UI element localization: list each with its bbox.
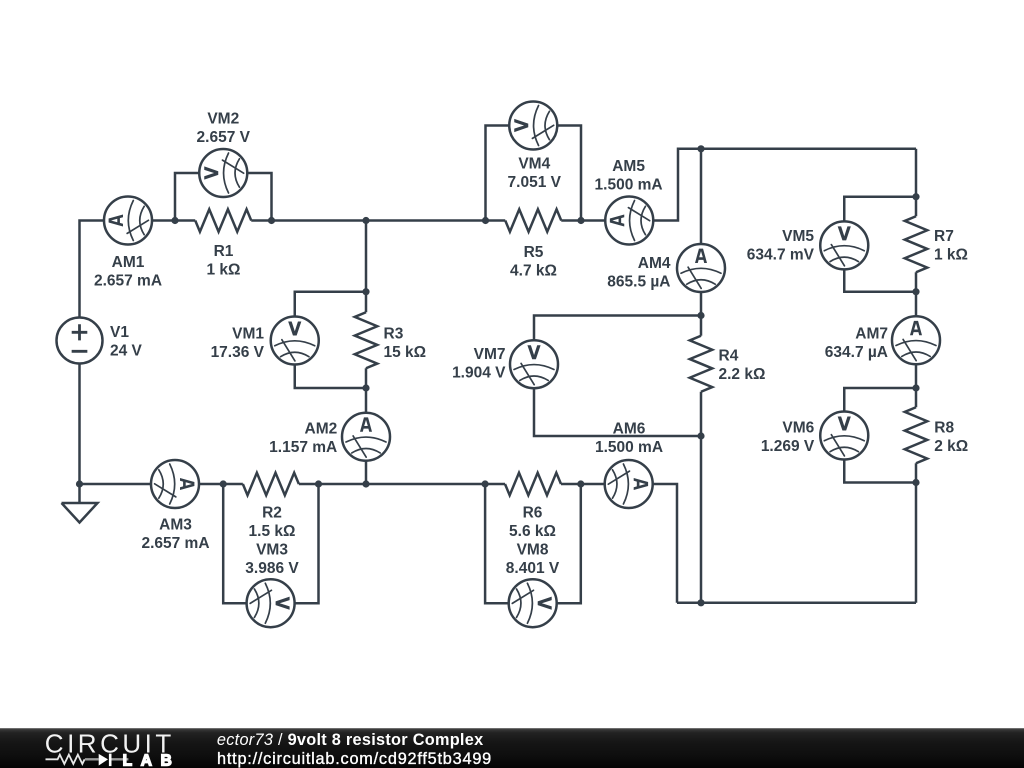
svg-text:1.157 mA: 1.157 mA: [269, 439, 337, 456]
wire VM8 right: [556, 484, 581, 603]
label VM5: [747, 228, 815, 264]
svg-text:VM8: VM8: [517, 542, 549, 559]
wire AM2 bottom: [365, 461, 368, 484]
logo resistor glyph: [46, 755, 85, 764]
ammeter AM6: [605, 460, 653, 508]
junction J4: [482, 217, 489, 224]
footer bar: [0, 728, 1024, 768]
svg-text:VM7: VM7: [474, 346, 506, 363]
svg-text:2.2 kΩ: 2.2 kΩ: [719, 366, 766, 383]
wire VM1 top: [295, 292, 366, 317]
svg-text:2.657 mA: 2.657 mA: [94, 272, 162, 289]
svg-text:634.7 mV: 634.7 mV: [747, 247, 815, 264]
label AM1: [94, 254, 162, 290]
svg-text:2 kΩ: 2 kΩ: [934, 438, 968, 455]
svg-text:AM5: AM5: [612, 158, 645, 175]
junction J17: [697, 599, 704, 606]
svg-text:AM4: AM4: [638, 255, 671, 272]
svg-text:R8: R8: [934, 420, 954, 437]
junction J13: [577, 480, 584, 487]
wire AM3 to R2: [199, 483, 223, 486]
svg-text:1.269 V: 1.269 V: [761, 438, 815, 455]
wire VM1 bottom: [295, 365, 366, 389]
wire VM6 top: [844, 388, 916, 412]
svg-text:VM1: VM1: [232, 326, 264, 343]
svg-text:1 kΩ: 1 kΩ: [207, 262, 241, 279]
junction J19: [912, 288, 919, 295]
ammeter AM5: [605, 197, 653, 245]
svg-text:R2: R2: [262, 505, 282, 522]
svg-text:AM7: AM7: [855, 326, 888, 343]
svg-text:AM1: AM1: [112, 254, 145, 271]
label AM3: [141, 517, 209, 553]
junction J6: [362, 288, 369, 295]
wire AM6 to bus: [653, 484, 677, 603]
wire VM2 right: [247, 173, 271, 221]
voltmeter VM6: [820, 412, 868, 460]
label AM5: [595, 158, 663, 194]
svg-text:1.5 kΩ: 1.5 kΩ: [249, 523, 296, 540]
ammeter AM7: [892, 316, 940, 364]
label VM1: [211, 326, 265, 362]
wire V1 bottom: [78, 365, 81, 485]
voltmeter VM1: [271, 317, 319, 365]
label VM6: [761, 419, 815, 455]
label VM2: [197, 111, 251, 147]
svg-text:VM6: VM6: [782, 419, 814, 436]
ammeter AM1: [104, 197, 152, 245]
svg-text:R7: R7: [934, 228, 954, 245]
wire VM4 right: [557, 126, 581, 221]
svg-text:24 V: 24 V: [110, 343, 143, 360]
label V1 value: [110, 324, 143, 360]
junction J12: [482, 480, 489, 487]
svg-text:17.36 V: 17.36 V: [211, 344, 265, 361]
wire VM6 bottom: [844, 460, 916, 483]
wire AM7 bottom: [915, 364, 918, 388]
wire VM8 left: [485, 484, 509, 603]
wire VM2 left: [175, 173, 199, 221]
wire bottom bus: [677, 602, 916, 605]
ammeter AM4: [677, 244, 725, 292]
wire node N2 to N3: [366, 219, 486, 222]
svg-text:R5: R5: [524, 244, 544, 261]
voltmeter VM3: [247, 579, 295, 627]
svg-text:VM2: VM2: [207, 111, 239, 128]
resistor R5: [486, 209, 582, 232]
resistor R7: [905, 197, 928, 292]
junction J9: [76, 480, 83, 487]
junction J2: [268, 217, 275, 224]
junction J16: [697, 432, 704, 439]
svg-text:R1: R1: [214, 243, 234, 260]
wire ground to AM3: [80, 483, 152, 486]
label AM2: [269, 421, 337, 457]
junction J7: [362, 384, 369, 391]
resistor R2: [223, 473, 318, 496]
junction J20: [912, 384, 919, 391]
ammeter AM2: [342, 413, 390, 461]
wire AM4 bottom: [700, 292, 703, 316]
resistor R4: [690, 316, 713, 437]
svg-text:3.986 V: 3.986 V: [245, 560, 299, 577]
label R5 value: [510, 244, 557, 280]
junction J10: [220, 480, 227, 487]
label AM7: [825, 326, 888, 362]
wire VM3 left: [223, 484, 247, 603]
label R6 VM8 values: [506, 505, 560, 578]
junction J8: [362, 480, 369, 487]
wire node N1 to N2: [272, 219, 367, 222]
wire VM7 top: [534, 316, 701, 341]
svg-text:R4: R4: [719, 348, 739, 365]
wire R2 to AM2 node: [319, 483, 367, 486]
svg-text:2.657 mA: 2.657 mA: [141, 535, 209, 552]
svg-text:1.500 mA: 1.500 mA: [595, 177, 663, 194]
svg-text:15 kΩ: 15 kΩ: [384, 344, 427, 361]
svg-text:ector73 / 9volt 8 resistor Com: ector73 / 9volt 8 resistor Complex: [217, 731, 484, 749]
junction J3: [362, 217, 369, 224]
wire AM5 to top bus: [653, 149, 916, 221]
label R4 value: [719, 348, 766, 384]
svg-text:AM3: AM3: [159, 517, 192, 534]
wire R5 to AM5: [581, 219, 605, 222]
wire VM3 right: [294, 484, 318, 603]
junction J1: [171, 217, 178, 224]
voltmeter VM4: [509, 102, 557, 150]
svg-text:http://circuitlab.com/cd92ff5t: http://circuitlab.com/cd92ff5tb3499: [217, 750, 492, 768]
svg-text:1.500 mA: 1.500 mA: [595, 439, 663, 456]
label R1 value: [207, 243, 241, 279]
wire V1 to AM1: [80, 221, 105, 317]
svg-text:1 kΩ: 1 kΩ: [934, 247, 968, 264]
svg-text:5.6 kΩ: 5.6 kΩ: [509, 523, 556, 540]
wire AM1 to R1: [152, 219, 175, 222]
svg-text:8.401 V: 8.401 V: [506, 560, 560, 577]
wire R4 to bus: [700, 436, 703, 603]
svg-text:865.5 µA: 865.5 µA: [607, 273, 670, 290]
ammeter AM3: [151, 460, 199, 508]
label VM7: [452, 346, 506, 382]
resistor R8: [905, 388, 928, 483]
svg-text:AM6: AM6: [613, 421, 646, 438]
svg-text:4.7 kΩ: 4.7 kΩ: [510, 263, 557, 280]
junction J15: [697, 312, 704, 319]
svg-text:VM4: VM4: [518, 156, 550, 173]
label R3 value: [384, 326, 427, 362]
svg-text:R6: R6: [523, 505, 543, 522]
wire AM7 top: [915, 292, 918, 317]
wire VM5 bottom: [844, 269, 916, 291]
wire AM4 top: [700, 149, 703, 244]
svg-text:LAB: LAB: [123, 752, 181, 768]
voltage source V1: [57, 318, 103, 364]
svg-text:7.051 V: 7.051 V: [508, 174, 562, 191]
svg-text:1.904 V: 1.904 V: [452, 365, 506, 382]
label R7 value: [934, 228, 968, 264]
voltmeter VM5: [820, 221, 868, 269]
junction J14: [697, 145, 704, 152]
wire VM4 left: [486, 126, 510, 221]
wire AM2 node to R6: [366, 483, 485, 486]
label R2 VM3 values: [245, 505, 299, 578]
wire VM7 bottom: [534, 388, 701, 436]
voltmeter VM7: [510, 340, 558, 388]
voltmeter VM8: [509, 579, 557, 627]
wire VM5 top: [844, 197, 916, 222]
wire top bus to R7: [915, 149, 918, 197]
svg-text:VM3: VM3: [256, 542, 288, 559]
wire R8 to bottom bus: [915, 483, 918, 603]
logo wire: [85, 758, 128, 760]
junction J11: [315, 480, 322, 487]
svg-text:VM5: VM5: [782, 228, 814, 245]
resistor R3: [355, 292, 378, 388]
wire R3 branch: [365, 221, 368, 292]
svg-text:2.657 V: 2.657 V: [197, 129, 251, 146]
ground: [62, 484, 98, 523]
resistor R1: [175, 209, 272, 232]
label AM6: [595, 421, 663, 457]
wire R6 to AM6: [581, 483, 605, 486]
junction J21: [912, 479, 919, 486]
svg-text:V1: V1: [110, 324, 129, 341]
junction J18: [912, 193, 919, 200]
label R8 value: [934, 420, 968, 456]
label VM4: [508, 156, 562, 192]
svg-text:R3: R3: [384, 326, 404, 343]
wire AM2 top: [365, 388, 368, 413]
label AM4: [607, 255, 671, 291]
resistor R6: [485, 473, 581, 496]
logo diode: [99, 754, 108, 766]
junction J5: [577, 217, 584, 224]
voltmeter VM2: [199, 149, 247, 197]
svg-text:634.7 µA: 634.7 µA: [825, 344, 888, 361]
svg-text:AM2: AM2: [305, 421, 338, 438]
